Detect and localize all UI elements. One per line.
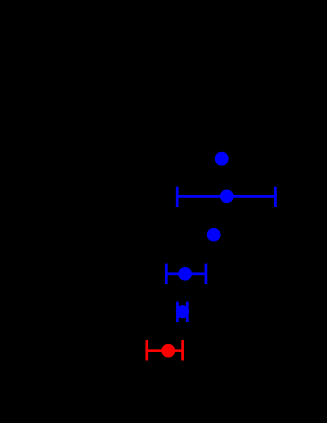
data point 1 (blue, no visible error bar) [215, 152, 229, 166]
error bar 5 (blue, narrow) [177, 302, 187, 322]
data point 6 (red) [161, 344, 175, 358]
error bar 6 (red) [147, 340, 183, 360]
data point 2 (blue) [220, 189, 234, 203]
data point 3 (blue, no visible error bar) [207, 228, 221, 242]
error bar 2 (blue, wide) [177, 187, 275, 207]
data point 4 (blue) [178, 267, 192, 281]
error bar 4 (blue, medium) [166, 264, 206, 284]
data point 5 (blue) [176, 305, 189, 318]
